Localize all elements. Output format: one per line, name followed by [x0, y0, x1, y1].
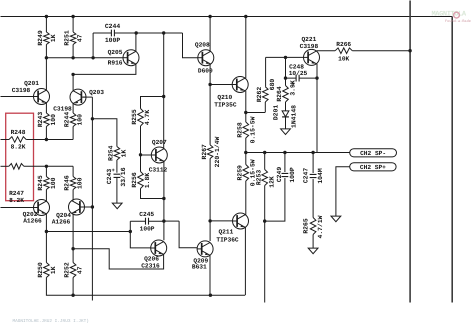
resistor R246 100: [64, 166, 84, 190]
svg-text:Q203: Q203: [89, 89, 104, 96]
svg-text:47: 47: [77, 34, 84, 42]
wire rail to R251: [72, 17, 74, 33]
svg-text:R244: R244: [64, 112, 71, 128]
svg-text:MAGNITOLHE.JRU2 I.JRU3 I.JKT): MAGNITOLHE.JRU2 I.JRU3 I.JKT): [13, 318, 89, 324]
svg-text:C2316: C2316: [141, 262, 160, 269]
wire Q204 base to feedback column: [81, 205, 94, 208]
svg-text:100: 100: [77, 114, 84, 126]
wire Q205 emitter to Q203 collector node: [71, 64, 135, 76]
wire rail to R249: [45, 17, 47, 33]
svg-text:D600: D600: [198, 68, 213, 75]
svg-text:A1266: A1266: [23, 218, 42, 225]
ground below R265: [308, 248, 318, 254]
resistor R266 10K: [335, 41, 352, 62]
svg-text:4.7/1W: 4.7/1W: [317, 215, 324, 238]
svg-text:0.15-5W: 0.15-5W: [250, 116, 257, 143]
wire Q210 emitter down to R258: [244, 91, 247, 122]
watermark logo top right: [432, 11, 471, 24]
wire to R262: [265, 57, 267, 86]
svg-text:Q211: Q211: [218, 229, 233, 236]
wire Q211 base from driver column: [210, 220, 232, 222]
svg-text:47: 47: [77, 266, 84, 274]
svg-text:R266: R266: [336, 41, 351, 48]
connector CH2 SP+: [350, 163, 396, 171]
resistor R244 100: [64, 112, 84, 128]
transistor Q206 C2316: [141, 240, 166, 269]
svg-text:Q201: Q201: [24, 80, 39, 87]
connector CH2 SP-: [350, 149, 397, 157]
svg-text:R265: R265: [303, 218, 310, 234]
svg-text:R262: R262: [256, 87, 263, 103]
svg-text:TIP36C: TIP36C: [216, 236, 239, 243]
capacitor C245 100P: [130, 211, 164, 232]
svg-text:100P: 100P: [140, 226, 155, 233]
wire right rail (from top rail corner down): [451, 17, 453, 303]
transistor Q202 A1266: [23, 200, 50, 225]
svg-text:R251: R251: [64, 30, 71, 46]
wire Q206 emitter loop to Q204 emitter: [73, 249, 164, 269]
transistor Q207 C3112: [149, 139, 168, 173]
svg-text:R258: R258: [236, 122, 243, 138]
wire R259 bottom to Q211 collector: [244, 181, 246, 215]
svg-text:Q205: Q205: [108, 49, 123, 56]
wire C245 right node branch to Q209 base column: [164, 220, 179, 222]
wire C243 to ground: [116, 178, 118, 204]
svg-text:1K: 1K: [121, 150, 128, 158]
wire R256 bottom to Q207 emitter node: [141, 189, 164, 199]
wire branch to R254: [92, 119, 117, 147]
wire Q202 base input: [1, 207, 34, 209]
svg-text:R267: R267: [201, 144, 208, 160]
ground below D201: [281, 129, 291, 135]
wire R251 bottom to node: [72, 45, 74, 58]
svg-text:R259: R259: [236, 165, 243, 181]
svg-text:10/25: 10/25: [289, 70, 308, 77]
resistor R252 47: [64, 262, 84, 278]
resistor R258 0.15-5W: [236, 116, 256, 143]
resistor R262 680: [256, 79, 276, 103]
ground below SP+ wire: [331, 216, 341, 222]
transistor Q201 C3198: [12, 80, 50, 105]
wire Q203 base to feedback column: [83, 96, 93, 98]
wire Q202 emitter down: [45, 214, 48, 263]
resistor R253 12K: [255, 153, 275, 188]
faint footer text: [13, 318, 89, 324]
capacitor C244 100P: [93, 23, 182, 44]
wire Q211 emitter down to tail: [244, 227, 246, 295]
wire R247 row to resistor columns: [24, 165, 73, 168]
wire bias node row: [266, 56, 304, 59]
wire R249 bottom to node: [45, 45, 47, 58]
capacitor C243 33/16: [106, 167, 127, 186]
svg-text:TIP35C: TIP35C: [214, 101, 237, 108]
svg-text:R253: R253: [255, 170, 262, 186]
svg-text:100: 100: [50, 114, 57, 126]
transistor Q204 A1266: [52, 199, 85, 226]
wire R248 row to resistor columns: [26, 138, 73, 141]
svg-text:8.2K: 8.2K: [11, 143, 26, 150]
svg-text:1.8K: 1.8K: [144, 173, 151, 189]
wire R266 to rail x=410: [352, 49, 412, 52]
resistor R251 47: [64, 30, 84, 46]
resistor R245 100: [37, 166, 57, 190]
wire R244 bottom to row: [72, 127, 74, 140]
svg-text:R248: R248: [11, 129, 26, 136]
wire R254 to C243: [116, 160, 118, 173]
resistor R264 3.9K: [276, 80, 296, 102]
svg-text:C244: C244: [105, 23, 121, 30]
svg-text:1N4148: 1N4148: [291, 105, 298, 128]
wire Q221 base: [302, 56, 304, 58]
resistor R256 1.8K: [131, 155, 151, 189]
svg-text:100: 100: [77, 177, 84, 189]
svg-text:100P: 100P: [289, 167, 296, 183]
svg-text:104M: 104M: [317, 168, 324, 184]
resistor R249 1K: [37, 30, 57, 46]
wire node row y=57 to Q205 base: [45, 56, 123, 59]
svg-text:D201: D201: [273, 105, 280, 121]
svg-text:10K: 10K: [338, 55, 349, 62]
svg-text:R245: R245: [37, 175, 44, 191]
wire Q207 emitter node down to Q206 collector: [162, 199, 165, 241]
capacitor C248 10/25: [286, 64, 318, 88]
svg-text:B631: B631: [192, 264, 207, 271]
wire Q204 emitter down: [71, 213, 74, 262]
wire Q209 base: [179, 221, 197, 248]
transistor Q211 TIP36C: [216, 213, 248, 243]
capacitor C247 104M: [302, 153, 324, 218]
svg-text:8.2K: 8.2K: [9, 197, 24, 204]
svg-text:Q207: Q207: [152, 139, 167, 146]
svg-text:R246: R246: [64, 175, 71, 191]
wire R258 bottom to bus: [244, 138, 247, 154]
svg-text:MAGNITOLA: MAGNITOLA: [432, 11, 467, 19]
resistor R247 8.2K: [1, 164, 25, 205]
resistor R267 220-1/4W: [201, 136, 221, 167]
resistor R254 1K: [108, 145, 128, 161]
wire Q210 collector: [245, 17, 247, 79]
node top-rail junction R251: [71, 15, 74, 18]
resistor R265 4.7/1W: [303, 215, 324, 238]
wire branch to R255: [141, 97, 164, 109]
wire C245 left leg down to Q206 base: [130, 221, 151, 248]
svg-text:220-1/4W: 220-1/4W: [214, 136, 221, 167]
svg-text:R256: R256: [131, 172, 138, 188]
wire to R264: [284, 57, 287, 85]
resistor R259 0.15-5W: [236, 153, 256, 187]
svg-text:R247: R247: [9, 190, 24, 197]
wire feedback column from Q203 base down: [91, 97, 94, 300]
transistor Q209 B631: [192, 241, 213, 271]
wire Q208 emitter branch to Q210 base: [210, 84, 232, 86]
wire Q203 collector up: [72, 74, 74, 90]
svg-text:C249: C249: [276, 167, 283, 183]
svg-text:R255: R255: [131, 109, 138, 125]
wire C244 node down to Q207 collector: [162, 33, 165, 148]
wire Q210 emitter node to R262 bottom: [246, 112, 265, 114]
wire R245 bottom to Q202 collector: [45, 190, 47, 202]
svg-text:R249: R249: [37, 30, 44, 46]
wire D201 to ground: [285, 117, 287, 129]
resistor R250 1K: [37, 262, 57, 278]
svg-text:Q221: Q221: [301, 36, 316, 43]
wire Q221 collector to R266: [316, 50, 335, 52]
svg-text:680: 680: [269, 79, 276, 91]
svg-text:Q208: Q208: [195, 41, 210, 48]
transistor Q203 C3198: [53, 89, 104, 112]
wire R243 bottom to row: [45, 127, 47, 140]
svg-text:C3198: C3198: [12, 87, 31, 94]
svg-text:CH2 SP-: CH2 SP-: [360, 150, 386, 157]
svg-text:C3198: C3198: [53, 105, 72, 112]
wire top supply rail: [1, 16, 453, 18]
svg-text:C245: C245: [139, 211, 154, 218]
svg-text:R254: R254: [108, 145, 115, 161]
wire Q209 emitter down to tail: [209, 255, 211, 295]
wire R262 bottom: [264, 102, 266, 113]
node rail to Q210 collector: [244, 15, 247, 18]
wire Q201 base input: [1, 96, 34, 98]
svg-text:C247: C247: [302, 168, 309, 184]
wire Q203 emitter down to R244: [72, 104, 74, 114]
svg-text:Found-a-Rade: Found-a-Rade: [445, 19, 471, 24]
transistor Q221 C3198: [300, 36, 320, 65]
resistor R255 4.7K: [131, 109, 151, 127]
svg-text:+: +: [292, 81, 295, 87]
svg-text:100P: 100P: [105, 37, 121, 44]
wire Q208 base from C244 node: [183, 33, 198, 58]
svg-text:100: 100: [50, 177, 57, 189]
wire R255 bottom to Q207 base node: [139, 126, 142, 157]
wire Q202 emitter branch to C245 node: [46, 230, 132, 233]
node top-rail junction R249: [45, 15, 48, 18]
highlight red box around R248 R247: [6, 113, 34, 201]
ground below C243: [112, 203, 122, 209]
resistor R248 8.2K: [1, 129, 27, 150]
svg-text:1K: 1K: [50, 34, 57, 42]
capacitor C249 100P: [265, 153, 296, 222]
wire R246 bottom to Q204 collector: [72, 190, 74, 201]
wire Q207 base: [141, 154, 151, 156]
wire output bus: [246, 151, 350, 154]
svg-text:R250: R250: [37, 262, 44, 278]
wire Q207 emitter down: [162, 162, 165, 201]
transistor Q205 A916: [108, 49, 139, 67]
wire vertical rail x=410: [409, 1, 411, 303]
svg-text:R916: R916: [108, 59, 123, 66]
wire C244 left leg down: [92, 33, 94, 58]
svg-text:CH2 SP+: CH2 SP+: [360, 164, 386, 171]
wire bottom tail rail: [46, 278, 245, 297]
svg-text:12K: 12K: [269, 176, 276, 188]
transistor Q208 D600: [195, 41, 214, 74]
wire Q205 collector up to C244 node: [135, 33, 137, 51]
svg-text:R243: R243: [37, 112, 44, 128]
svg-text:Q210: Q210: [217, 94, 232, 101]
svg-text:A1266: A1266: [52, 219, 71, 226]
svg-text:C3198: C3198: [300, 43, 319, 50]
svg-text:C3112: C3112: [149, 166, 168, 173]
wire R265 to ground: [312, 235, 314, 249]
wire CH2 SP+ to ground: [336, 167, 350, 216]
wire R267 bottom down to Q209 collector: [208, 159, 211, 242]
wire Q221 emitter down to output bus: [315, 64, 318, 153]
wire Q201 collector up: [45, 58, 47, 90]
svg-text:33/16: 33/16: [120, 167, 127, 186]
wire R253 bottom / feedback node down: [263, 186, 266, 303]
node rail to Q208 collector: [208, 15, 211, 18]
resistor R243 100: [37, 112, 57, 128]
wire Q201 emitter down to R243: [45, 103, 47, 113]
transistor Q210 TIP35C: [214, 77, 248, 109]
wire Q208 collector: [209, 17, 211, 52]
svg-text:4.7K: 4.7K: [144, 110, 151, 126]
svg-text:R264: R264: [276, 86, 283, 102]
diode D201 1N4148: [273, 102, 298, 128]
svg-text:R252: R252: [64, 262, 71, 278]
wire Q208 emitter down through R267 column: [208, 64, 211, 145]
svg-text:1K: 1K: [50, 266, 57, 274]
